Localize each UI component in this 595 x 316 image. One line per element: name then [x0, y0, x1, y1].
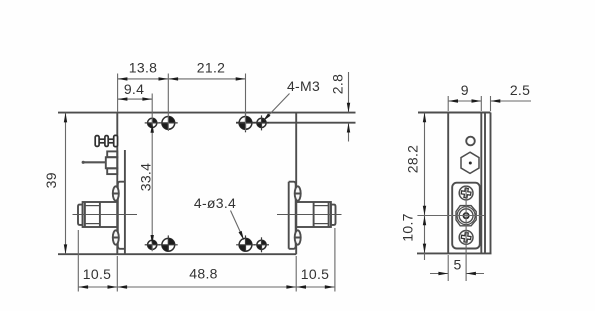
svg-text:10.5: 10.5	[301, 266, 329, 282]
left connector flange	[118, 182, 125, 249]
dim 5	[430, 272, 484, 275]
hole M3 top-left	[145, 118, 160, 127]
svg-text:21.2: 21.2	[197, 60, 225, 76]
svg-text:39: 39	[43, 172, 59, 188]
dim 9.4 line	[118, 97, 153, 100]
extension line right wall bottom	[295, 256, 297, 292]
trimmer block top-left	[106, 151, 118, 174]
right SMA connector barrel	[296, 202, 331, 227]
svg-text:4-ø3.4: 4-ø3.4	[194, 195, 236, 211]
side body/cover line	[480, 113, 482, 254]
left connector centerline	[73, 214, 138, 216]
side right edge	[490, 113, 492, 254]
body bottom edge	[58, 253, 296, 255]
left flange screw lower	[113, 230, 119, 244]
right flange screw lower	[295, 230, 301, 244]
extension line left (wall)	[117, 74, 119, 112]
svg-text:5: 5	[453, 257, 461, 273]
SMB circle end view	[466, 137, 475, 146]
side top extension lines	[448, 96, 490, 111]
side bottom edge	[417, 252, 492, 254]
extension line left wall bottom	[116, 256, 118, 292]
left inner wall line	[124, 150, 126, 254]
svg-text:2.5: 2.5	[510, 82, 530, 98]
left SMA connector barrel	[83, 202, 118, 227]
SMA vertical centerline	[465, 186, 467, 282]
side left edge	[447, 113, 449, 254]
flange screw bottom end view	[459, 231, 473, 245]
flange screw top end view	[459, 186, 473, 200]
hole M3 bottom-left	[145, 240, 160, 249]
hole M3 top-right	[254, 115, 269, 130]
cover tab lower line (2.8 step)	[236, 122, 356, 124]
right inner wall line (flange inner face)	[288, 182, 290, 249]
dim 28.2	[423, 113, 426, 216]
hole D3.4 top-left	[159, 117, 178, 130]
svg-text:9: 9	[461, 82, 469, 98]
svg-text:48.8: 48.8	[189, 266, 217, 282]
dim 2.5 leader	[491, 99, 532, 102]
bottom dim line 10.5 / 48.8 / 10.5	[78, 285, 334, 288]
svg-text:33.4: 33.4	[138, 163, 154, 191]
svg-text:10.5: 10.5	[83, 266, 111, 282]
trimmer pin	[82, 161, 106, 164]
right connector flange	[289, 182, 296, 249]
dim 10.7	[423, 216, 426, 261]
extension line hole3	[245, 74, 247, 132]
svg-text:4-M3: 4-M3	[287, 78, 320, 94]
dim 2.8	[347, 72, 350, 142]
SMA horizontal centerline	[417, 215, 484, 217]
svg-text:9.4: 9.4	[124, 81, 144, 97]
dim 9	[448, 99, 481, 102]
body right wall	[295, 113, 297, 255]
hole M3 bottom-right	[254, 237, 269, 252]
extension line hole2	[167, 74, 169, 132]
svg-text:10.7: 10.7	[400, 213, 416, 241]
leader 4-O3.4	[231, 211, 245, 241]
body top edge	[58, 112, 356, 114]
SMA end view nut	[456, 206, 476, 226]
leader 4-M3	[263, 94, 290, 122]
left SMA connector tip	[78, 205, 83, 225]
right flange screw upper	[295, 186, 301, 200]
right SMA connector tip	[331, 205, 336, 225]
left flange screw upper	[113, 186, 119, 200]
connector flange end view (rounded rect)	[452, 183, 480, 249]
extension + 33.4 dim line through holes	[151, 94, 154, 252]
extension line SMA left tip	[77, 230, 79, 292]
extension line SMA right tip	[334, 228, 336, 292]
dim 13.8 / 21.2 line	[118, 77, 246, 80]
right connector centerline	[277, 214, 342, 216]
body left wall	[116, 113, 118, 255]
SMB jack top-left (ribbed)	[95, 135, 117, 146]
svg-text:13.8: 13.8	[129, 60, 157, 76]
hole D3.4 bottom-right	[236, 235, 255, 251]
extension line side bottom-left	[447, 255, 449, 281]
hole D3.4 bottom-left	[159, 235, 178, 251]
hole D3.4 top-right	[236, 114, 255, 133]
svg-text:28.2: 28.2	[405, 145, 421, 173]
side top edge	[418, 112, 491, 114]
side cover seam line	[484, 113, 486, 254]
trimmer hex end view	[461, 152, 479, 173]
svg-text:2.8: 2.8	[330, 74, 346, 94]
dim 39	[64, 113, 67, 255]
